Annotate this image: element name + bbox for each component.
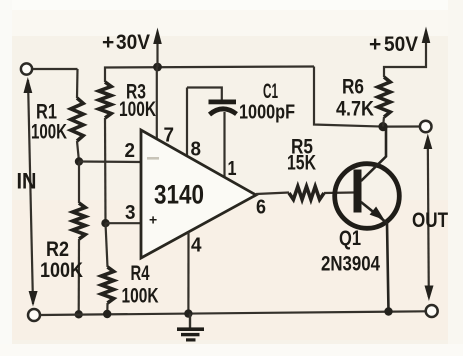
wire R2 top stem — [78, 162, 80, 204]
node pin4/ground junction — [184, 309, 192, 317]
svg-text:+: + — [102, 31, 114, 54]
resistor R6 — [378, 77, 390, 117]
wire pin8 to C1 top — [187, 88, 222, 101]
resistor R1 — [71, 98, 83, 141]
node R3/R4/pin3 junction — [101, 219, 109, 227]
svg-text:50V: 50V — [384, 33, 418, 56]
ground symbol — [177, 314, 204, 342]
wire pin 7 supply — [156, 67, 158, 140]
arrow +30V up — [153, 28, 162, 45]
arrow +50V up — [422, 27, 431, 44]
svg-text:4.7K: 4.7K — [336, 98, 374, 121]
node R6/collector/out junction — [378, 122, 387, 131]
svg-text:7: 7 — [164, 125, 175, 147]
arrow emitter — [370, 207, 385, 221]
transistor Q1 emitter stroke — [361, 202, 389, 311]
node +30V junction — [153, 63, 162, 72]
svg-text:R4: R4 — [131, 262, 150, 285]
resistor R2 — [73, 203, 85, 239]
transistor Q1 circle — [335, 164, 400, 229]
svg-text:8: 8 — [191, 139, 202, 161]
svg-text:Q1: Q1 — [339, 227, 361, 250]
wire +30V rail — [105, 67, 314, 83]
resistor R4 — [101, 267, 113, 303]
wire C1 bottom to pin 1 — [223, 112, 225, 178]
svg-text:1000pF: 1000pF — [239, 102, 295, 124]
resistor R5 — [289, 187, 324, 200]
capacitor C1 top plate — [209, 100, 237, 105]
wire output node to OUT terminal — [383, 125, 420, 127]
svg-text:2: 2 — [125, 140, 136, 162]
wire OUT line — [428, 140, 429, 297]
wire ground rail — [41, 311, 426, 315]
terminal input top-left — [21, 63, 32, 74]
wire R4 top stem — [106, 223, 108, 267]
svg-text:R2: R2 — [46, 238, 69, 261]
wire pin 4 to ground rail — [187, 232, 189, 314]
terminal lower-right — [426, 305, 438, 317]
wire R3 bottom to pin3 node — [104, 118, 107, 223]
wire pin 6 output — [256, 193, 289, 195]
node R4 bottom junction — [103, 310, 111, 318]
capacitor C1 curved plate — [210, 109, 237, 115]
wire R6 bottom — [383, 117, 384, 127]
svg-text:6: 6 — [256, 197, 266, 219]
wire R5 to Q1 base — [324, 191, 354, 194]
wire +30V rail drop to output node — [314, 67, 383, 127]
svg-text:100K: 100K — [31, 121, 67, 144]
node R1/R2/pin2 junction — [75, 157, 83, 165]
op-amp U1 3140 triangle — [141, 130, 256, 258]
wire pin 3 input — [106, 222, 142, 224]
svg-text:100K: 100K — [119, 98, 156, 121]
terminal OUT upper-right — [420, 121, 432, 133]
label +30V — [102, 31, 150, 54]
transistor Q1 base bar — [354, 170, 362, 213]
svg-text:3: 3 — [125, 202, 136, 224]
wire R2 bottom to ground rail — [78, 239, 81, 314]
wire +30V arrow stem — [156, 42, 158, 67]
wire input terminal to R1 top — [33, 68, 78, 70]
wire R1 bottom to node — [77, 141, 79, 162]
wire R4 bottom to ground rail — [106, 303, 108, 314]
svg-text:2N3904: 2N3904 — [321, 253, 380, 276]
svg-text:100K: 100K — [122, 285, 159, 308]
minus symbol pin 2 (faint) — [147, 157, 159, 160]
wire R1 top stem — [76, 69, 79, 98]
arrow down to lower-right terminal — [425, 286, 434, 302]
svg-text:4: 4 — [191, 235, 202, 257]
svg-text:+: + — [149, 212, 157, 228]
transistor Q1 collector stroke — [361, 127, 386, 181]
wire +50V feed — [384, 40, 426, 77]
arrow down to lower-left terminal — [29, 291, 38, 307]
wire pin 2 input — [79, 160, 141, 163]
label +50V — [369, 33, 418, 56]
resistor R3 — [99, 82, 111, 118]
wire pin 8 up — [186, 88, 188, 156]
arrow up to OUT terminal — [424, 134, 433, 150]
svg-text:15K: 15K — [287, 152, 316, 175]
svg-text:100K: 100K — [40, 259, 83, 282]
terminal lower-left — [28, 309, 40, 321]
svg-text:30V: 30V — [116, 31, 150, 54]
svg-text:1: 1 — [228, 158, 237, 180]
svg-text:IN: IN — [17, 169, 37, 194]
arrow up to input terminal — [24, 77, 33, 93]
wire IN line — [28, 80, 33, 304]
svg-text:3140: 3140 — [154, 180, 204, 210]
svg-text:C1: C1 — [263, 80, 278, 103]
node R2 bottom junction — [75, 310, 83, 318]
node emitter/ground junction — [384, 307, 392, 315]
svg-text:R6: R6 — [342, 76, 364, 99]
svg-text:+: + — [369, 33, 381, 56]
svg-text:OUT: OUT — [412, 209, 448, 232]
